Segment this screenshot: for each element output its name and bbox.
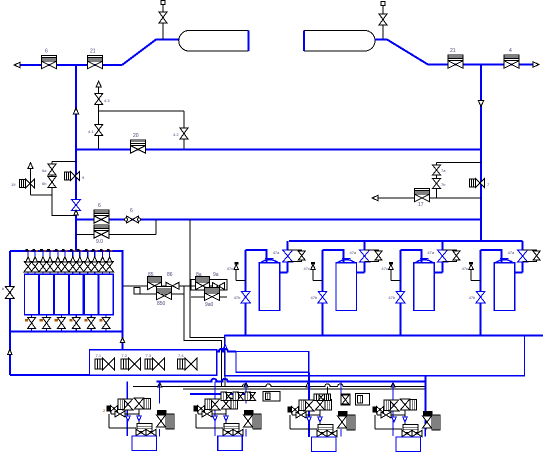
valve 6s header B (124, 208, 140, 223)
valve b battery left (2, 286, 14, 299)
valve 7 (motor) (470, 179, 491, 188)
valves column C4 top (69, 250, 84, 275)
arrow up main left (73, 108, 78, 114)
vessel V2 (336, 259, 357, 311)
svg-text:47b: 47b (234, 295, 241, 300)
wire line 85 (147, 285, 220, 287)
svg-text:47b: 47b (311, 295, 318, 300)
valve 47a V3 (427, 250, 447, 262)
valve 47c V1 (227, 262, 246, 280)
column C6 (99, 274, 113, 314)
wire line 17 (378, 197, 481, 199)
svg-text:21: 21 (90, 49, 96, 55)
pump cluster C (288, 381, 355, 451)
valve 47b V3 (388, 291, 405, 303)
svg-text:20: 20 (133, 133, 139, 139)
wire riser to tank T1 (122, 40, 179, 66)
node vent tick T1 (161, 1, 165, 5)
svg-text:7a: 7a (441, 168, 446, 173)
svg-text:4: 4 (509, 48, 512, 54)
svg-text:19: 19 (11, 182, 16, 187)
wire drain V4 (480, 250, 482, 336)
wire vessels bottom header (225, 335, 543, 337)
valve 21 right (actuated) (448, 48, 463, 68)
svg-text:4.3: 4.3 (104, 98, 110, 103)
svg-text:47c: 47c (381, 266, 387, 271)
svg-text:17: 17 (418, 202, 424, 208)
wire link battery to 85 (124, 285, 148, 287)
svg-text:9a: 9a (213, 272, 219, 278)
valves column C5 top (84, 250, 99, 275)
valve 4.3 (95, 94, 111, 105)
wire header link right (480, 220, 482, 242)
wire bus blue 1 (156, 379, 425, 382)
check valve main left (72, 200, 81, 216)
arrow battery left (8, 350, 13, 355)
valve 20 (actuated) (131, 133, 146, 153)
svg-text:6b: 6b (42, 181, 47, 186)
svg-text:7.4: 7.4 (178, 353, 184, 358)
arrow inlet left (14, 62, 20, 67)
wire drain V2 (322, 250, 324, 336)
valve column C6 bottom (100, 315, 111, 332)
valve 47b V1 (234, 291, 251, 303)
svg-text:47c: 47c (462, 266, 468, 271)
svg-text:86: 86 (167, 272, 173, 278)
svg-text:47b: 47b (469, 295, 476, 300)
svg-text:6: 6 (45, 49, 48, 55)
valve 7.3 (motor) (145, 353, 165, 370)
valve 7.2 (motor) (121, 353, 141, 370)
valve 9a0 (actuated) (205, 287, 220, 308)
icon bus pump x233 (233, 392, 244, 401)
icon box 356 (356, 394, 370, 406)
wire cluster vert 6a6b (51, 162, 53, 195)
svg-text:7: 7 (487, 182, 490, 187)
arrow down main right (478, 101, 483, 107)
arrow elbow1 (223, 345, 228, 350)
svg-text:7b: 7b (441, 182, 446, 187)
wire line 850 (134, 293, 184, 295)
valve 4 (actuated) (504, 48, 519, 68)
wire battery left vertical (9, 251, 11, 375)
svg-text:47a: 47a (427, 250, 434, 255)
pump cluster B (194, 381, 261, 450)
icon bus pump x221 (221, 392, 232, 401)
wire main left vertical (75, 65, 77, 251)
wire drain V1 (245, 250, 247, 336)
wire tank T1 right edge (248, 31, 250, 52)
wire bus black 2 (183, 388, 425, 390)
valve column C4 bottom (70, 315, 81, 332)
wire cluster bottom L (31, 195, 77, 216)
svg-text:b: b (2, 286, 5, 291)
valve 47c V4 (462, 262, 481, 280)
valve 6a (42, 164, 56, 175)
wire line 9a0 (191, 296, 227, 298)
svg-text:9a0: 9a0 (205, 302, 214, 308)
valves column C3 top (54, 250, 69, 275)
svg-text:6a: 6a (42, 168, 47, 173)
valve 7a (433, 165, 447, 175)
icon glyph 324 (325, 386, 331, 400)
wire 47a drop V3 (434, 241, 442, 273)
svg-text:21: 21 (450, 48, 456, 54)
valve 47a V2 (350, 250, 370, 262)
svg-text:47a: 47a (273, 250, 280, 255)
svg-text:7.3: 7.3 (146, 353, 152, 358)
valve column C2 bottom (40, 315, 51, 332)
valve 9a (213, 272, 225, 290)
arrow bus c (306, 382, 310, 387)
wire inner box link (217, 349, 236, 352)
valve 47c V3 (381, 262, 400, 280)
valve 4.2 (173, 128, 188, 139)
wire bus blue 2 (190, 393, 247, 395)
box 8a cluster (191, 280, 227, 291)
node link box (134, 288, 140, 294)
wire elbow2 (x184) (184, 287, 222, 387)
svg-text:47b: 47b (388, 295, 395, 300)
wire feed elbow V4 (481, 250, 502, 263)
svg-text:6: 6 (130, 208, 133, 214)
bypass V1 (288, 250, 306, 262)
wire bypass 7 vert (436, 162, 438, 198)
column C1 (25, 274, 39, 314)
wire bypass 7 top (437, 161, 482, 163)
valve 19 (motor) (11, 179, 35, 188)
icon bus pump x245 (245, 392, 256, 401)
arrow vent 19 (28, 163, 33, 169)
svg-text:47a: 47a (508, 250, 515, 255)
vessel V3 (414, 259, 435, 311)
wire main inlet line left (17, 64, 122, 66)
wire bypass top (99, 110, 184, 112)
wire 47a drop V4 (515, 241, 523, 273)
arrow battery drop (120, 338, 125, 343)
arrow bus a (158, 382, 162, 387)
wire feed elbow V1 (246, 250, 267, 263)
wire valve19 stem (30, 168, 32, 195)
wire cluster top link (52, 161, 76, 163)
valve 47a V1 (273, 250, 293, 262)
pump cluster A (107, 381, 174, 450)
svg-text:9: 9 (82, 175, 85, 180)
column C4 (69, 274, 83, 314)
wire battery right vertical (122, 251, 124, 350)
valve 17 (actuated) (415, 189, 430, 209)
wire battery top header (10, 250, 124, 252)
valves column C2 top (39, 250, 54, 275)
wire blue header B (y219.5) (76, 219, 481, 221)
valve 6 (actuated) (42, 49, 57, 69)
vessel V1 (259, 259, 280, 311)
wire vent line tank T1 (162, 4, 164, 40)
label 2 small (103, 408, 106, 413)
tank T1 (179, 31, 249, 52)
wire feed elbow V2 (323, 250, 344, 263)
valve 21 (actuated) (88, 49, 103, 69)
arrow line 17 (372, 195, 378, 200)
valve 47c V2 (304, 262, 323, 280)
bypass V2 (365, 250, 383, 262)
tank T2 (304, 31, 375, 52)
box motorvalves A (90, 350, 217, 376)
wire blue header A (y150) (76, 148, 481, 150)
valve 6 header B (actuated) (94, 203, 109, 223)
valve 7b (433, 179, 447, 189)
wire 47a drop V1 (280, 241, 288, 273)
box inner lower (236, 352, 309, 373)
icon glyph 314 (314, 394, 324, 401)
bypass V4 (523, 250, 541, 262)
wire black line y234.5 (76, 234, 156, 236)
svg-text:47c: 47c (304, 266, 310, 271)
pump cluster D (373, 381, 440, 451)
svg-text:4.2: 4.2 (173, 132, 179, 137)
svg-text:85: 85 (148, 272, 154, 278)
valve 7.1 (motor) (95, 353, 115, 370)
svg-text:2: 2 (103, 408, 106, 413)
wire drain V3 (399, 250, 401, 336)
arrow vent 4.3 (96, 81, 101, 87)
valve 850 (actuated) (157, 286, 172, 307)
valve 6b (42, 177, 56, 188)
column C3 (54, 274, 68, 314)
valve 85 (actuated) (148, 272, 162, 290)
arrow bus b (244, 382, 248, 387)
wire battery bottom header (10, 331, 123, 333)
wire drop to cluster D (424, 376, 426, 430)
column C2 (39, 274, 53, 314)
wire main right vertical (480, 65, 482, 242)
icon box 341 (341, 394, 350, 405)
valve 7.4 (motor) (177, 353, 197, 370)
svg-text:7.2: 7.2 (122, 353, 128, 358)
valve 47b V4 (469, 291, 486, 303)
valves column C1 top (24, 250, 39, 275)
wire feed elbow V3 (400, 250, 421, 263)
wire vent line tank T2 (382, 5, 384, 40)
valve 8a (actuated) (196, 272, 210, 290)
wire vent 4.3 line (98, 87, 100, 150)
valve 9 (motor) (65, 172, 86, 181)
icon coil box 263 (263, 392, 280, 402)
valve 4.1 (88, 125, 103, 136)
wire drop to tank C (308, 372, 310, 437)
node vent tick T2 (381, 2, 385, 6)
valves column C6 top (99, 250, 114, 275)
bypass V3 (442, 250, 460, 262)
wire bypass right drop (183, 111, 185, 149)
svg-text:47a: 47a (350, 250, 357, 255)
valve vent T1 (159, 12, 167, 23)
valve 86 (166, 272, 179, 289)
box main lower (225, 336, 525, 376)
wire tank T2 left edge (303, 31, 305, 52)
wire vessels top header (289, 240, 522, 242)
arrow bus d (391, 382, 395, 387)
column C5 (84, 274, 98, 314)
svg-text:47c: 47c (227, 266, 233, 271)
svg-text:6: 6 (98, 203, 101, 209)
wire 47a drop V2 (357, 241, 365, 273)
valve column C3 bottom (55, 315, 66, 332)
valve 47b V2 (311, 291, 328, 303)
svg-text:9.0: 9.0 (96, 239, 103, 245)
vessel V4 (494, 259, 514, 311)
svg-text:8a: 8a (196, 272, 202, 278)
wire left bottom link (10, 374, 90, 376)
valve column C1 bottom (25, 315, 35, 332)
valve vent T2 (379, 14, 387, 25)
valve column C5 bottom (85, 315, 96, 332)
valve 9.0 (actuated) (94, 225, 109, 245)
svg-text:4.1: 4.1 (88, 129, 94, 134)
wire tank T2 outlet (375, 40, 533, 65)
wire bus black 1 (133, 384, 425, 387)
arrow outlet right (533, 62, 539, 67)
svg-text:850: 850 (157, 301, 166, 307)
wire elbow1 (x190) (190, 220, 225, 388)
wire riser x156 (155, 220, 157, 235)
svg-text:7.1: 7.1 (96, 353, 102, 358)
valve 47a V4 (508, 250, 528, 262)
